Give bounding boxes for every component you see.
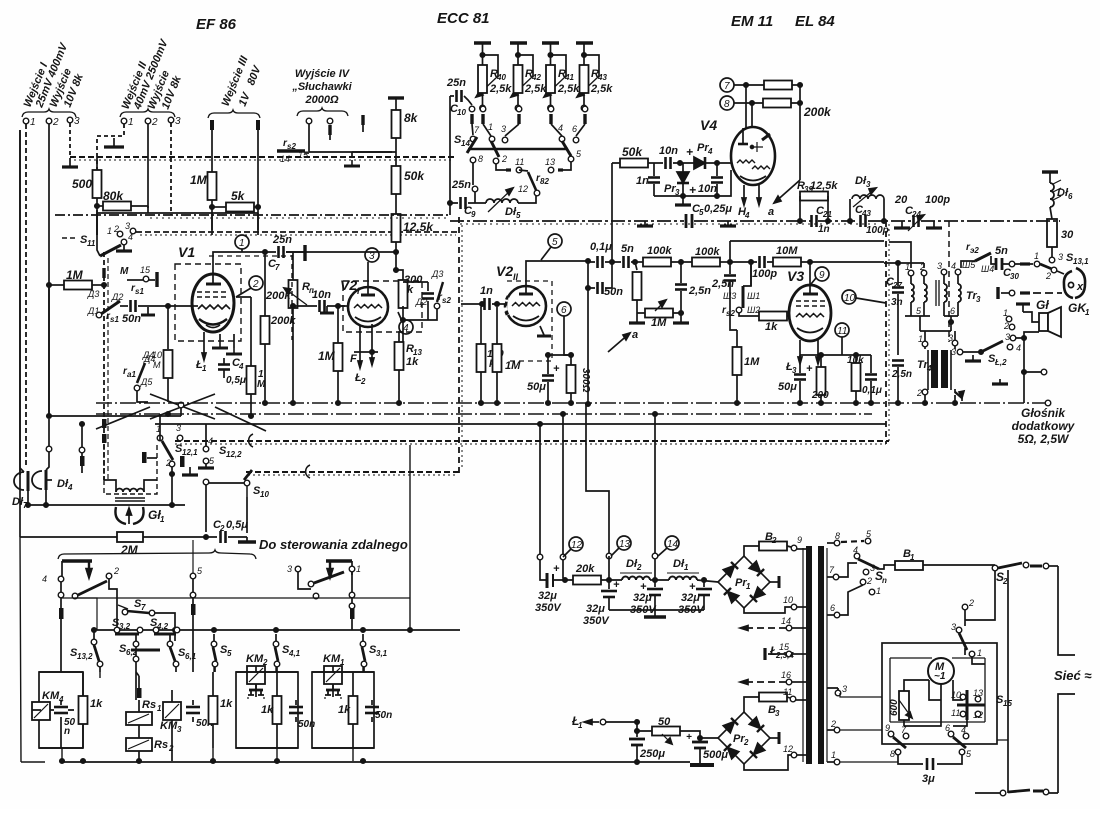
head Gl1 arcs: [115, 507, 165, 524]
dashed trunk x104: [103, 252, 105, 480]
wire y241: [730, 240, 884, 242]
brace IV: [297, 108, 348, 116]
grounds on bus: [637, 221, 653, 226]
svg-text:100p: 100p: [752, 268, 777, 280]
svg-text:10: 10: [260, 490, 269, 499]
arm right: [314, 572, 344, 583]
contact 2: [106, 573, 112, 579]
contact 1: [349, 566, 355, 572]
svg-text:50n: 50n: [375, 710, 392, 721]
feed x563: [563, 414, 565, 580]
svg-text:100k: 100k: [695, 246, 720, 258]
terminal 3: [67, 117, 73, 123]
X crossing node: [96, 394, 266, 431]
svg-text:2: 2: [1045, 271, 1051, 281]
resistor 1k KM1: [338, 672, 358, 748]
shield bus y441: [175, 440, 889, 442]
svg-text:1: 1: [239, 238, 245, 249]
svg-text:M: M: [120, 266, 129, 277]
svg-text:43: 43: [861, 209, 871, 218]
wire III-a: [211, 120, 213, 172]
V3 grids: [796, 300, 825, 302]
svg-text:Głośnik: Głośnik: [1021, 406, 1066, 420]
svg-text:1k: 1k: [90, 698, 103, 710]
svg-text:5: 5: [227, 649, 232, 658]
svg-text:1: 1: [30, 117, 36, 128]
KM2 group box: [236, 672, 298, 748]
tube V2I envelope: [348, 287, 388, 327]
wire y598: [75, 597, 410, 599]
bottom bus control: [62, 761, 462, 763]
svg-text:1: 1: [488, 122, 493, 132]
anode wire to row: [526, 261, 588, 294]
motor contact 3: [956, 627, 962, 633]
circled 10: [842, 290, 886, 304]
arm 3: [959, 633, 967, 650]
wire II-2: [147, 124, 149, 208]
plug left of S12.1: [142, 452, 147, 463]
bottom mains line: [975, 792, 1000, 794]
resistor 8k: [392, 110, 401, 138]
svg-text:9: 9: [797, 535, 802, 545]
transformer Tr4: [916, 333, 964, 398]
svg-text:dodatkowy: dodatkowy: [1012, 419, 1076, 433]
wires speaker: [1016, 312, 1039, 403]
svg-text:4: 4: [208, 436, 213, 446]
svg-text:1: 1: [910, 553, 915, 562]
lower contacts: [470, 157, 476, 163]
svg-text:4: 4: [853, 545, 858, 555]
tube V2II envelope: [506, 286, 546, 326]
svg-text:11: 11: [783, 687, 792, 697]
switch S6.2: [119, 634, 160, 700]
svg-text:12,5k: 12,5k: [810, 180, 838, 192]
svg-text:100k: 100k: [647, 245, 672, 257]
contact pair x193: [192, 579, 194, 592]
svg-text:6: 6: [830, 603, 835, 613]
svg-text:200k: 200k: [265, 290, 291, 302]
svg-text:2,5n: 2,5n: [711, 278, 734, 290]
coil Dl3: [848, 175, 886, 223]
wire Pr1 to pin10: [744, 607, 791, 613]
switch S7: [118, 598, 175, 630]
svg-text:3: 3: [1058, 252, 1063, 262]
svg-text:6,1: 6,1: [185, 652, 197, 661]
svg-text:Wyjście IV: Wyjście IV: [295, 68, 351, 80]
KM2 relay: [246, 653, 268, 701]
pot 50: [635, 716, 718, 744]
V4 leads H4 a: [738, 185, 761, 220]
svg-text:2: 2: [501, 154, 507, 164]
circled 14: [658, 536, 679, 556]
resistor 2M: [20, 532, 217, 557]
svg-text:Gł: Gł: [1036, 298, 1049, 312]
head Dl7: [12, 468, 28, 510]
resistor 80k: [103, 202, 131, 211]
ground stub 50n: [147, 307, 149, 314]
bridge Pr1: [718, 556, 770, 608]
svg-text:6: 6: [561, 305, 567, 316]
svg-text:5Ω, 2,5W: 5Ω, 2,5W: [1018, 432, 1070, 446]
V2II label: [496, 263, 519, 282]
svg-text:250μ: 250μ: [639, 748, 665, 760]
svg-text:16: 16: [781, 670, 791, 680]
svg-text:20k: 20k: [575, 563, 595, 575]
ground under 10n: [326, 306, 328, 312]
switch S4.1: [273, 634, 300, 672]
circled 1: [235, 235, 249, 252]
V2II anode: [519, 293, 533, 296]
terminal 2: [46, 118, 52, 124]
pin 7: [827, 576, 833, 578]
V2II zigzag: [512, 303, 540, 307]
capacitor C4: [218, 357, 246, 386]
svg-text:32μ: 32μ: [681, 592, 700, 604]
svg-text:2000Ω: 2000Ω: [304, 94, 338, 106]
wire x97 up: [61, 598, 97, 630]
Dl6 top bar: [1042, 170, 1058, 173]
svg-text:1: 1: [128, 117, 134, 128]
switch S13.1: [1020, 251, 1089, 281]
supply top bar: [388, 96, 404, 99]
svg-text:KM: KM: [42, 690, 60, 702]
wire: [395, 138, 397, 166]
wire 50n to V1 grid: [138, 305, 192, 307]
aux speaker terminal bottom: [1045, 400, 1051, 406]
svg-text:2: 2: [52, 117, 59, 128]
svg-text:1: 1: [107, 226, 112, 236]
pin 14 arrow: [740, 616, 806, 631]
S11 contact 2: [117, 231, 123, 237]
resistor 200k b: [763, 99, 791, 108]
wire: [395, 194, 397, 214]
svg-text:3: 3: [951, 622, 956, 632]
svg-text:1: 1: [746, 582, 751, 591]
ground right C24: [933, 221, 935, 227]
svg-text:2: 2: [1002, 577, 1008, 586]
circled 11: [835, 323, 849, 355]
svg-text:41: 41: [564, 73, 574, 82]
S11 contact 3: [130, 228, 136, 234]
svg-text:s1: s1: [110, 315, 119, 324]
capacitor 50n: [131, 300, 136, 312]
ground under in3: [69, 158, 71, 166]
right rail: [1049, 566, 1075, 793]
Pr2 right ground: [770, 737, 779, 739]
svg-text:4: 4: [403, 323, 409, 334]
brace group III: [208, 110, 260, 118]
svg-text:Д3: Д3: [87, 289, 99, 299]
svg-text:15: 15: [298, 150, 309, 160]
switch S5: [211, 634, 232, 672]
ground above contacts: [1016, 302, 1030, 305]
switch S11: [100, 245, 121, 256]
circled 3: [365, 248, 379, 295]
Pr2 bottom to pin12: [744, 755, 791, 770]
motor box inner: [890, 658, 985, 722]
pin 6: [827, 614, 834, 616]
svg-text:80k: 80k: [103, 189, 124, 203]
svg-text:1M: 1M: [66, 268, 84, 282]
S15 contacts: [951, 688, 1012, 720]
trunk x612: [611, 220, 613, 288]
KM1 group box: [312, 672, 374, 748]
svg-text:12: 12: [783, 744, 793, 754]
wire rs2 to IV: [305, 152, 396, 158]
svg-text:1n: 1n: [636, 175, 649, 187]
shielded wire in1: [25, 124, 27, 465]
ecap 32u no1: [535, 560, 565, 614]
ground SL2: [972, 355, 974, 360]
cap 0,1u: [588, 241, 621, 268]
svg-text:3μ: 3μ: [922, 773, 935, 785]
V4 zigzag left: [737, 160, 755, 163]
dashed stub left S11: [62, 237, 78, 239]
switch r82: [518, 170, 549, 196]
cap C24 variable: [905, 205, 924, 231]
switch S12.2: [203, 424, 242, 467]
pot R41: [542, 43, 580, 111]
svg-text:3: 3: [976, 295, 981, 304]
wire 2 to S3.2: [109, 579, 117, 628]
svg-text:+: +: [689, 183, 696, 197]
capacitor 1n V2II: [461, 285, 505, 310]
svg-text:1: 1: [160, 515, 165, 524]
wire III-b: [257, 120, 259, 207]
cap C27 3n: [886, 262, 904, 355]
circled 8: [720, 96, 754, 128]
resistor R13 1k: [395, 342, 404, 370]
svg-text:3: 3: [176, 423, 181, 433]
big ground psu: [690, 763, 714, 767]
L1 takeoff: [571, 714, 639, 737]
labels D4 10M: [142, 350, 162, 370]
svg-text:5n: 5n: [995, 245, 1008, 257]
resistor 300ohm: [567, 353, 592, 403]
left vertical x20: [19, 130, 21, 475]
resistor 1M v1: [247, 366, 267, 394]
resistor 300k: [399, 280, 408, 308]
a arrow: [768, 180, 800, 218]
svg-text:KM: KM: [246, 653, 264, 665]
svg-text:10n: 10n: [698, 183, 717, 195]
V1 grounds: [212, 342, 228, 348]
svg-text:50μ: 50μ: [778, 381, 797, 393]
cap 50n KM1: [365, 700, 392, 722]
ground C2 right: [246, 537, 248, 541]
cap 50n: [586, 282, 623, 298]
svg-text:50μ: 50μ: [527, 381, 546, 393]
svg-text:11: 11: [87, 239, 96, 248]
V4 arc: [740, 176, 766, 181]
head rs1 upper: [120, 265, 157, 296]
trunk x459 dashed: [458, 217, 460, 473]
transformer Tr3: [889, 242, 981, 316]
tube V4 envelope: [731, 127, 775, 185]
pot 200k R11: [265, 280, 314, 308]
svg-text:+: +: [553, 363, 560, 375]
contact pair x82: [79, 447, 85, 453]
trunk x886 dashed: [885, 221, 887, 444]
svg-text:2: 2: [168, 744, 174, 753]
svg-text:12: 12: [571, 540, 583, 551]
svg-text:10k: 10k: [847, 355, 864, 366]
svg-text:5: 5: [552, 237, 558, 248]
svg-text:15: 15: [1003, 699, 1012, 708]
cap 50n KM4: [54, 700, 76, 737]
resistor 20k psu: [563, 556, 622, 585]
svg-text:V2: V2: [496, 263, 513, 279]
switch S3.1: [360, 634, 387, 672]
svg-text:1: 1: [684, 563, 689, 572]
svg-text:Ł,2: Ł,2: [994, 358, 1007, 367]
resistor 12.5k: [392, 214, 401, 242]
resistor 50k: [392, 166, 401, 194]
motor contact 1: [969, 651, 975, 657]
svg-text:10: 10: [457, 108, 466, 117]
capacitor C9 25n: [448, 179, 486, 219]
resistor 10M: [773, 258, 801, 267]
svg-text:1M: 1M: [318, 349, 336, 363]
left vertical x450: [449, 96, 451, 215]
diode Pr4: [686, 142, 713, 169]
capacitor D2: [403, 282, 434, 320]
circled 6: [557, 302, 571, 355]
svg-text:2,3,4: 2,3,4: [775, 651, 794, 660]
resistor R39 12,5k: [797, 180, 838, 223]
svg-text:1: 1: [977, 648, 982, 658]
KM1 relay: [323, 653, 345, 701]
capacitor C2 0,5u: [213, 519, 248, 543]
switch S12.1: [156, 414, 198, 505]
circled 4: [398, 312, 413, 334]
S14 contacts: [474, 122, 577, 135]
svg-text:14: 14: [667, 539, 679, 550]
svg-text:2: 2: [968, 598, 974, 608]
svg-text:3: 3: [125, 221, 130, 231]
contacts 1-4: [1003, 308, 1021, 353]
svg-text:s2: s2: [442, 296, 451, 305]
V3 top bar: [803, 293, 818, 296]
svg-text:3,2: 3,2: [119, 622, 131, 631]
svg-text:a1: a1: [127, 370, 136, 379]
svg-text:200: 200: [811, 390, 829, 401]
switch Sn: [853, 545, 887, 596]
ground left C24: [901, 221, 903, 227]
capacitor 25n C7: [268, 234, 292, 272]
svg-text:4: 4: [558, 123, 563, 133]
switch S13.2: [70, 628, 103, 672]
svg-text:4: 4: [951, 261, 956, 271]
row y630: [97, 629, 460, 631]
capacitor 10n second: [698, 163, 723, 196]
svg-text:14: 14: [280, 154, 290, 164]
svg-text:2: 2: [916, 388, 922, 398]
svg-text:Ш1: Ш1: [747, 291, 760, 301]
resistor 1M V2II: [493, 344, 502, 372]
feed x655: [654, 414, 656, 580]
svg-text:600: 600: [889, 699, 900, 716]
tube V3 envelope: [789, 285, 831, 341]
labels 20 100p: [894, 194, 950, 206]
svg-text:4: 4: [1016, 343, 1021, 353]
svg-text:350V: 350V: [583, 615, 610, 627]
wire IV-1 down: [308, 124, 310, 152]
wire x258 stub: [257, 213, 259, 230]
input group II labels: [120, 36, 185, 112]
V4 cross: [751, 142, 763, 152]
resistor 1k V3: [759, 312, 787, 321]
svg-text:4: 4: [67, 483, 73, 492]
svg-text:V3: V3: [787, 268, 804, 284]
resistor R3: [759, 687, 806, 718]
crystal head GK1: [1064, 268, 1090, 317]
svg-text:25n: 25n: [272, 234, 292, 246]
a arrow mid: [608, 329, 638, 352]
feed x586: [586, 404, 609, 553]
svg-text:a: a: [632, 329, 638, 341]
contact pair x61: [60, 582, 62, 592]
node anode/300k: [402, 306, 404, 344]
svg-text:1k: 1k: [220, 698, 233, 710]
svg-text:2М: 2М: [120, 543, 139, 557]
switch S2: [992, 562, 1058, 586]
heads bottom wire: [20, 130, 185, 537]
capacitor C5: [686, 203, 732, 228]
svg-text:6: 6: [572, 124, 577, 134]
svg-text:Д5: Д5: [140, 377, 153, 387]
svg-text:0,1μ: 0,1μ: [590, 241, 612, 253]
svg-text:1M: 1M: [190, 173, 208, 187]
svg-text:82: 82: [540, 177, 549, 186]
svg-text:7: 7: [141, 603, 146, 612]
svg-text:3: 3: [866, 180, 871, 189]
wires tr3 bottom to bus: [905, 312, 958, 331]
wire to 50n: [120, 305, 128, 307]
resistor 1M V3: [733, 330, 761, 405]
terminal II-1: [121, 118, 127, 124]
brace group II: [120, 109, 175, 117]
ecap 50u V3: [778, 355, 813, 401]
svg-text:5k: 5k: [231, 189, 246, 203]
shield bus y215 left: [55, 214, 450, 216]
ecap 500u: [686, 732, 728, 764]
relay Rs1: [126, 699, 162, 725]
svg-text:1M: 1M: [505, 360, 521, 372]
grid resistor 1M: [338, 305, 349, 307]
svg-text:V4: V4: [700, 117, 717, 133]
contact circles row: [469, 106, 475, 112]
svg-text:21: 21: [822, 210, 832, 219]
capacitor C10 25n: [446, 77, 472, 117]
resistor 10M grid: [164, 350, 173, 378]
labels D3 D2 D1: [87, 289, 123, 316]
V3 zigzag: [796, 314, 824, 318]
plug IV-3: [362, 115, 364, 125]
resistor 200k (grid V2): [261, 315, 297, 344]
switch ra1: [123, 354, 155, 391]
svg-text:2,5k: 2,5k: [557, 83, 580, 95]
wire bus to 392 col: [352, 151, 392, 153]
circled 5: [541, 234, 562, 260]
svg-text:3: 3: [74, 116, 80, 127]
svg-text:1M: 1M: [744, 356, 760, 368]
svg-text:+: +: [686, 145, 693, 159]
resistor 1k KM4: [79, 672, 104, 748]
capacitor 1n: [636, 163, 660, 196]
transformer right stubs: [827, 688, 838, 691]
svg-text:Rs: Rs: [142, 699, 156, 711]
